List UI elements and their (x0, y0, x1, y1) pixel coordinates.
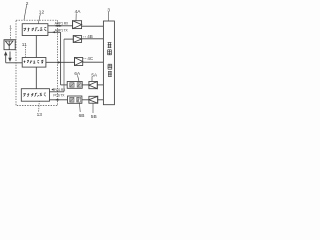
svg-text:5B: 5B (91, 114, 97, 120)
amp 4C (75, 58, 83, 66)
filter 6B innards (70, 97, 81, 102)
triplexer 11 text (24, 60, 43, 64)
leader for 5B (92, 103, 94, 113)
filter 6B (68, 96, 82, 103)
radio circuit vertical text (108, 42, 112, 76)
filter 6A (67, 82, 82, 89)
leader for 11 (24, 47, 26, 58)
leader for 4A (75, 13, 77, 20)
wire antenna to triplexer (6, 62, 23, 64)
duplexer 12 text (24, 28, 47, 32)
up arrow (5, 52, 7, 62)
amp 5B (89, 96, 98, 103)
wire 4B out (82, 38, 104, 40)
label 4A (75, 9, 82, 15)
leader for 13 (38, 101, 41, 111)
wire RX3 duplexer13 to riser (50, 91, 65, 93)
multiplexer dashed box 2 (16, 20, 58, 105)
text AMP1 TX (55, 29, 69, 33)
arrow right on RX2 (58, 61, 62, 63)
label 6A (74, 71, 81, 76)
svg-text:12: 12 (39, 10, 45, 16)
arrow blob row PCS RX (51, 88, 53, 91)
arrow left on TX3 (54, 99, 58, 101)
wire amp5B to box3 (98, 99, 104, 101)
amp 5A (89, 82, 97, 89)
leader for 1 (10, 29, 12, 39)
wire into amp 4B (64, 38, 73, 40)
wire 4C out (83, 61, 104, 63)
leader for 4B (83, 36, 87, 38)
leader for 5A (91, 77, 93, 82)
leader for 6A (78, 75, 80, 81)
wire TX3 duplexer13 to filter6B (50, 99, 68, 101)
label 11 (22, 42, 27, 48)
amp 4A (73, 21, 82, 29)
wire duplexer12 to triplexer (35, 36, 37, 58)
leader for 6B (79, 104, 82, 113)
duplexer 12 (22, 24, 48, 36)
antenna box (4, 40, 15, 50)
svg-text:PCS RX: PCS RX (54, 88, 66, 92)
wire filter6A to amp5A (82, 84, 89, 86)
wire RX2 triplexer to amp4C (46, 61, 75, 63)
label 5B (91, 114, 97, 120)
svg-text:PCS TX: PCS TX (53, 93, 65, 97)
amp 4B (73, 36, 81, 43)
text PCS RX (54, 88, 66, 92)
leader for 2 (24, 5, 27, 20)
wire TX1 duplexer12 to riser (48, 31, 61, 33)
wire riser to filter 6A (61, 84, 68, 86)
RX3 riser (63, 39, 65, 92)
label 13 (37, 112, 43, 118)
svg-text:6B: 6B (79, 113, 85, 119)
label 4B (87, 34, 93, 39)
wire amp5A to box3 (97, 84, 103, 86)
text AMP1 RX (55, 22, 69, 26)
arrow right on RX1 (56, 25, 60, 27)
triplexer 11 (22, 58, 46, 68)
label 2 (26, 1, 29, 7)
label 5A (91, 73, 98, 78)
leader for 3 (108, 12, 110, 21)
label 4C (87, 56, 94, 61)
text PCS TX (53, 93, 65, 97)
label 3 (107, 8, 110, 14)
svg-text:4A: 4A (75, 9, 82, 15)
svg-text:4C: 4C (87, 56, 94, 61)
wire filter6B to amp5B (82, 99, 89, 101)
duplexer 13 text (23, 93, 46, 97)
svg-text:5A: 5A (91, 73, 98, 78)
wire triplexer to duplexer13 (35, 67, 37, 89)
TX1 riser (60, 32, 62, 85)
wire RX1 duplexer12 to amp4A (48, 25, 73, 27)
duplexer 13 (21, 89, 49, 102)
arrow left on TX1 (52, 31, 56, 33)
filter 6A innards (70, 83, 81, 87)
svg-text:AMP1 RX: AMP1 RX (55, 22, 69, 26)
svg-text:AMP1 TX: AMP1 TX (55, 29, 69, 33)
svg-text:11: 11 (22, 42, 27, 48)
down arrow (9, 52, 11, 61)
svg-text:6A: 6A (74, 71, 81, 76)
svg-text:4B: 4B (87, 34, 93, 39)
radio circuit box 3 (103, 21, 114, 105)
leader for 4C (83, 57, 86, 59)
leader for 12 (38, 14, 40, 24)
wire 4A out (82, 25, 104, 27)
node label 1 (9, 25, 12, 31)
label 6B (79, 113, 85, 119)
label 12 (39, 10, 45, 16)
antenna symbol (5, 41, 13, 50)
svg-text:13: 13 (37, 112, 43, 118)
